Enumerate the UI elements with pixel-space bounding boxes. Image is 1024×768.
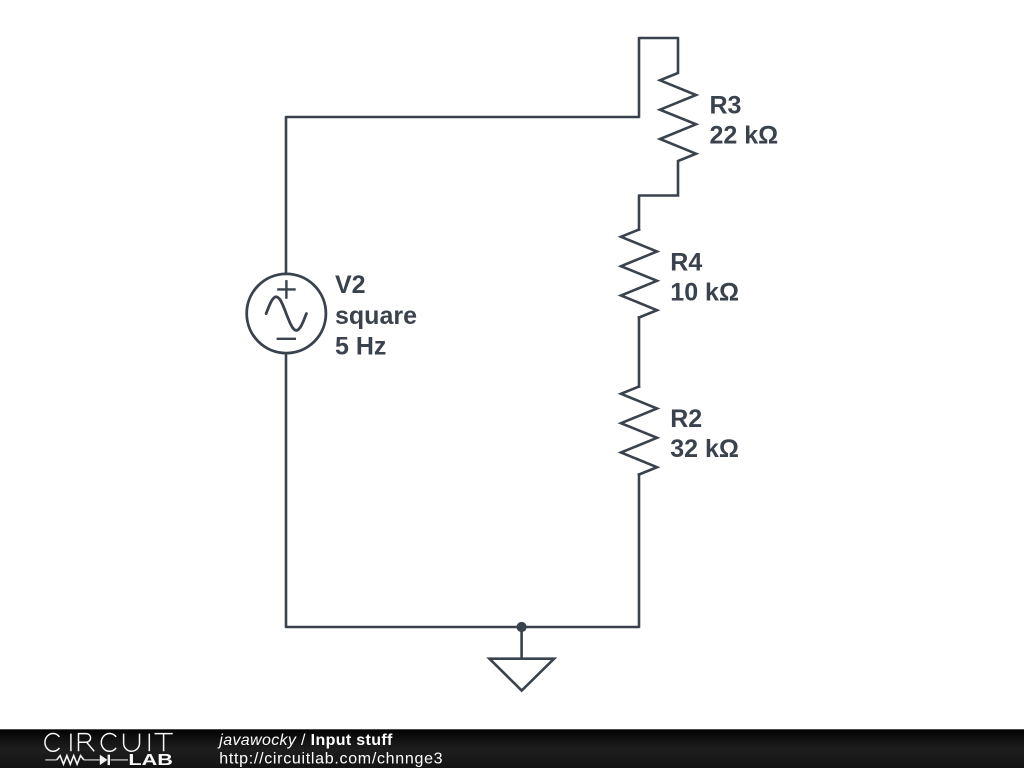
svg-text:10 kΩ: 10 kΩ bbox=[670, 278, 739, 306]
svg-text:javawocky / Input stuff: javawocky / Input stuff bbox=[217, 732, 393, 749]
sine symbol bbox=[266, 297, 306, 331]
svg-text:LAB: LAB bbox=[128, 752, 173, 768]
svg-text:22 kΩ: 22 kΩ bbox=[710, 121, 779, 149]
wire: riser from top rail up to R3 branch bbox=[638, 39, 641, 117]
wire: between R4 and R2 bbox=[638, 318, 641, 387]
resistor R3 bbox=[640, 39, 696, 196]
junction node dot bbox=[517, 622, 527, 632]
svg-text:V2: V2 bbox=[335, 271, 366, 299]
wire: V2 negative lead down to bottom rail bbox=[285, 352, 288, 626]
svg-text:R4: R4 bbox=[670, 248, 702, 276]
voltage source V2 circle bbox=[247, 274, 326, 353]
wire: R3 to R4 vertical lead bbox=[638, 196, 641, 229]
ground bbox=[489, 659, 554, 691]
wire: top jog over to R3 bbox=[640, 37, 678, 40]
resistor R4 bbox=[621, 230, 657, 318]
plus sign bbox=[277, 280, 296, 299]
wire: R2 down to bottom rail bbox=[638, 475, 641, 627]
wire: bottom rail bbox=[287, 626, 639, 629]
ground symbol bbox=[489, 628, 554, 691]
svg-text:square: square bbox=[335, 302, 417, 330]
footer bar bbox=[0, 729, 1024, 768]
logo resistor-diode glyph bbox=[45, 755, 128, 766]
svg-text:http://circuitlab.com/chnnge3: http://circuitlab.com/chnnge3 bbox=[219, 751, 443, 768]
svg-text:R2: R2 bbox=[670, 405, 702, 433]
wire: top rail bbox=[287, 116, 639, 119]
svg-text:5 Hz: 5 Hz bbox=[335, 333, 386, 361]
resistor R2 bbox=[621, 387, 657, 475]
svg-text:32 kΩ: 32 kΩ bbox=[670, 435, 739, 463]
logo CIRCUIT wordmark bbox=[45, 734, 173, 752]
minus sign bbox=[277, 338, 296, 340]
wire: V2 positive lead up to top-left corner bbox=[285, 118, 288, 275]
svg-text:R3: R3 bbox=[710, 91, 742, 119]
wire: ground stem bbox=[520, 628, 523, 658]
